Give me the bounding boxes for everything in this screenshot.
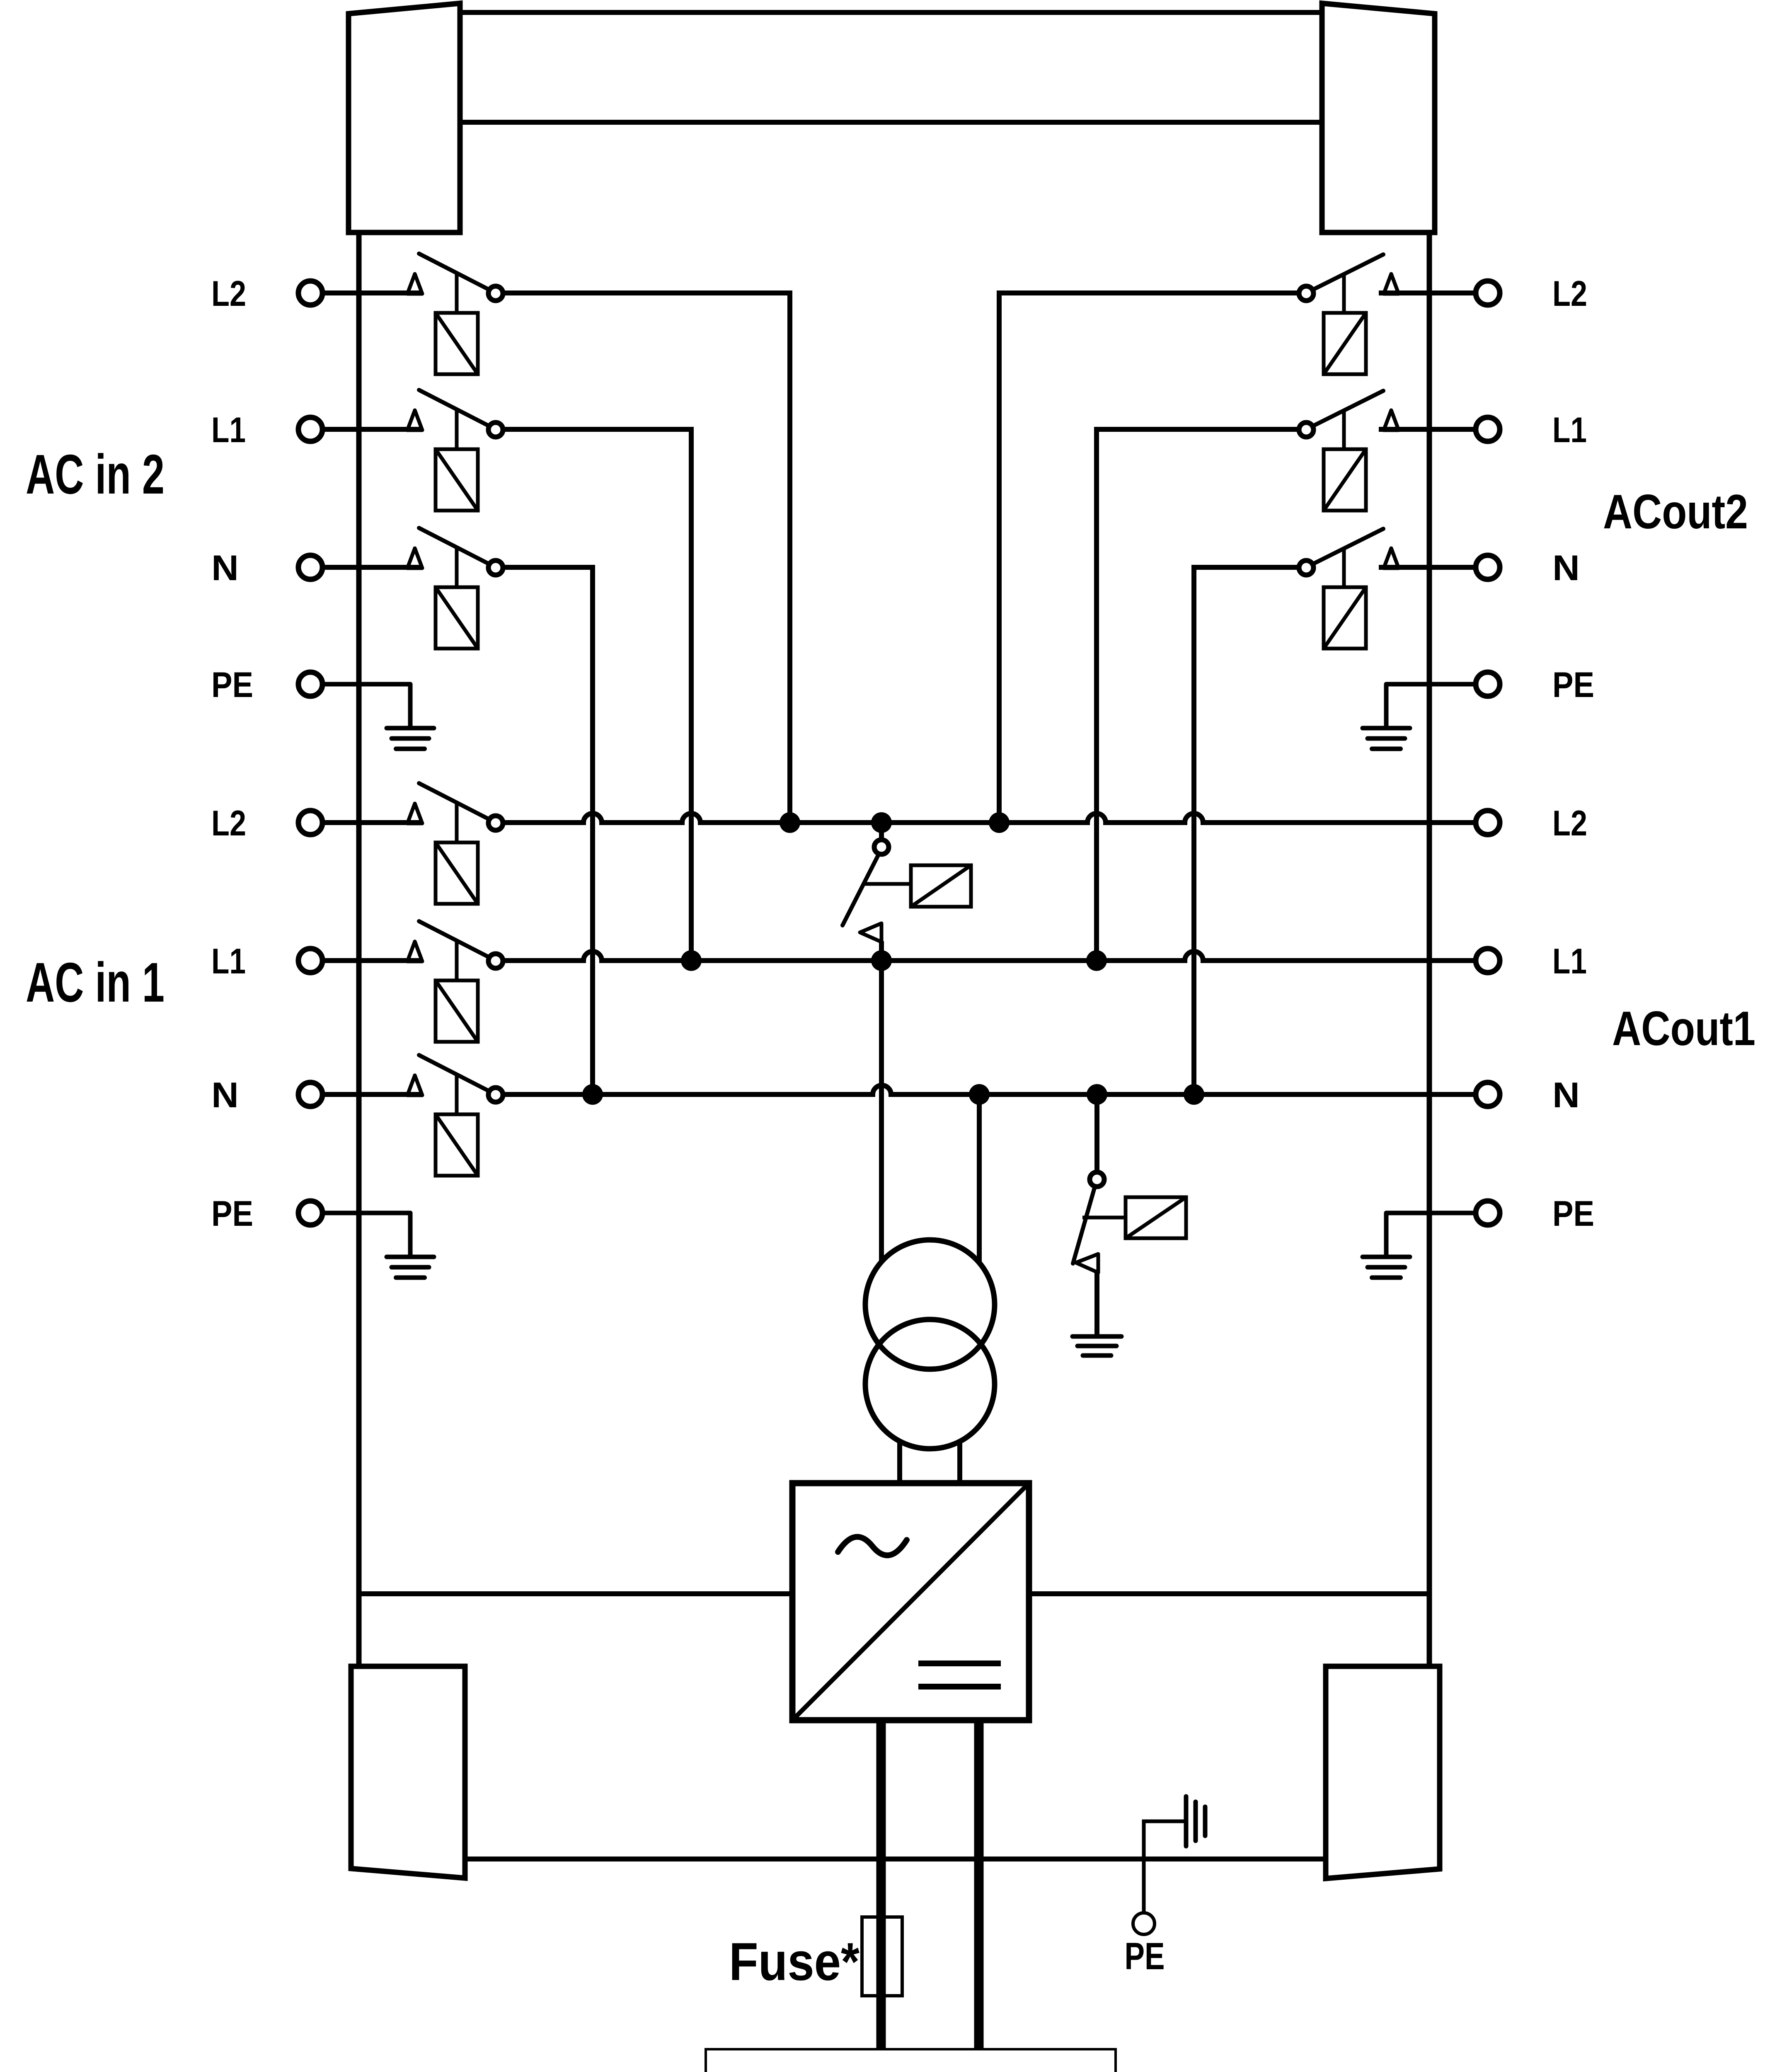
relay K4 (AC in 1 L2) blade bbox=[419, 783, 493, 821]
wire transformer primary right lead bbox=[977, 1094, 982, 1263]
enclosure bracket top-right bbox=[1322, 3, 1435, 232]
terminal AC in 2 N bbox=[298, 555, 322, 579]
relay K7 (ACout2 L2) fixed contact triangle bbox=[1384, 274, 1399, 294]
relay K9 (ACout2 N) moving contact bbox=[1299, 561, 1314, 575]
junction node L1 / relay K10 and transformer bbox=[871, 950, 892, 971]
wire transformer secondary right stub bbox=[957, 1441, 962, 1486]
relay K3 (AC in 2 N) blade bbox=[419, 528, 493, 566]
ground relay K11 earth bbox=[1073, 1334, 1121, 1339]
relay K8 (ACout2 L1) blade bbox=[1309, 391, 1383, 428]
wire AC in 1 L2 terminal to contact bbox=[310, 820, 423, 825]
relay K4 (AC in 1 L2) fixed contact triangle bbox=[407, 804, 422, 823]
relay K4 (AC in 1 L2) coil bbox=[436, 842, 478, 904]
relay K5 (AC in 1 L1) moving contact bbox=[489, 954, 503, 968]
enclosure bracket bottom-left bbox=[351, 1666, 465, 1878]
svg-text:PE: PE bbox=[211, 1194, 253, 1234]
ground AC in 1 PE bbox=[387, 1255, 434, 1259]
svg-text:L1: L1 bbox=[211, 410, 246, 450]
svg-text:Fuse*: Fuse* bbox=[729, 1932, 860, 1992]
relay K1 (AC in 2 L2) actuator link bbox=[455, 274, 459, 315]
transformer T1 primary winding bbox=[865, 1240, 995, 1369]
wire ACout2 L1 from bus L1 bbox=[1097, 429, 1299, 961]
wire AC in 2 L1 terminal to contact bbox=[310, 427, 423, 432]
svg-text:PE: PE bbox=[211, 665, 253, 705]
junction node L1 / AC in 2 drop bbox=[681, 950, 702, 971]
wire ACout2 L2 contact to terminal bbox=[1379, 290, 1488, 295]
svg-text:N: N bbox=[211, 548, 239, 588]
terminal ACout2 L1 bbox=[1476, 417, 1500, 441]
junction node N / AC in 2 drop bbox=[582, 1084, 603, 1105]
wire top band upper bbox=[460, 10, 1322, 15]
relay K7 (ACout2 L2) actuator link bbox=[1342, 274, 1346, 315]
wire bus L2 (node L2) bbox=[503, 813, 1488, 823]
relay K2 (AC in 2 L1) coil bbox=[436, 449, 478, 511]
terminal ACout1 PE bbox=[1476, 1201, 1500, 1225]
wire transformer secondary left stub bbox=[897, 1441, 902, 1486]
svg-text:L2: L2 bbox=[1552, 274, 1587, 314]
junction node L2 / relay K10 bbox=[871, 812, 892, 833]
terminal ACout1 L2 bbox=[1476, 811, 1500, 835]
wire AC in 1 L1 terminal to contact bbox=[310, 958, 423, 963]
wire ACout2 L2 from bus L2 bbox=[999, 293, 1299, 823]
relay K6 (AC in 1 N) fixed contact triangle bbox=[407, 1075, 422, 1095]
relay K7 (ACout2 L2) moving contact bbox=[1299, 286, 1314, 301]
wire AC in 2 PE pigtail bbox=[310, 684, 410, 728]
terminal AC in 2 L2 bbox=[298, 281, 322, 305]
relay K10 stub from node L2 bbox=[879, 823, 884, 841]
relay K11 coil bbox=[1126, 1197, 1186, 1238]
svg-text:L1: L1 bbox=[1552, 942, 1587, 981]
wire AC in 2 L1 to bus L1 bbox=[503, 429, 691, 961]
enclosure bracket top-left bbox=[349, 3, 460, 232]
terminal ACout1 N bbox=[1476, 1082, 1500, 1106]
terminal ACout2 L2 bbox=[1476, 281, 1500, 305]
wire bus N (node N) bbox=[503, 1085, 1488, 1094]
transformer T1 secondary winding bbox=[865, 1319, 995, 1449]
inverter/charger U1 diagonal bbox=[792, 1483, 1029, 1720]
relay K8 (ACout2 L1) moving contact bbox=[1299, 423, 1314, 437]
svg-text:N: N bbox=[1552, 1075, 1580, 1115]
wire ACout1 PE pigtail bbox=[1386, 1213, 1488, 1257]
junction node N / relay K11 bbox=[1087, 1084, 1107, 1105]
relay K9 (ACout2 N) blade bbox=[1309, 529, 1383, 566]
wire ACout2 N contact to terminal bbox=[1379, 565, 1488, 570]
relay K3 (AC in 2 N) moving contact bbox=[489, 561, 503, 575]
relay K1 (AC in 2 L2) coil bbox=[436, 313, 478, 374]
relay K9 (ACout2 N) fixed contact triangle bbox=[1384, 548, 1399, 568]
terminal AC in 2 PE bbox=[298, 672, 322, 696]
wire AC in 2 L2 to bus L2 bbox=[503, 293, 790, 823]
relay K5 (AC in 1 L1) blade bbox=[419, 921, 493, 959]
terminal AC in 1 L1 bbox=[298, 949, 322, 973]
relay K11 moving contact bbox=[1090, 1172, 1104, 1187]
relay K4 (AC in 1 L2) actuator link bbox=[455, 803, 459, 844]
terminal chassis PE bbox=[1133, 1913, 1155, 1934]
wire chassis PE bbox=[1144, 1821, 1184, 1913]
svg-text:N: N bbox=[1552, 548, 1580, 588]
terminal ACout2 N bbox=[1476, 555, 1500, 579]
svg-text:PE: PE bbox=[1125, 1935, 1165, 1978]
enclosure bracket bottom-right bbox=[1326, 1666, 1440, 1878]
ground AC in 2 PE bbox=[387, 726, 434, 731]
relay K5 (AC in 1 L1) actuator link bbox=[455, 941, 459, 982]
relay K8 (ACout2 L1) fixed contact triangle bbox=[1384, 410, 1399, 430]
relay K5 (AC in 1 L1) fixed contact triangle bbox=[407, 942, 422, 961]
relay K3 (AC in 2 N) coil bbox=[436, 587, 478, 649]
relay K6 (AC in 1 N) blade bbox=[419, 1055, 493, 1093]
relay K11 stub to earth bbox=[1094, 1272, 1099, 1336]
terminal ACout1 L1 bbox=[1476, 949, 1500, 973]
svg-text:N: N bbox=[211, 1075, 239, 1115]
svg-text:L1: L1 bbox=[1552, 410, 1587, 450]
svg-text:L2: L2 bbox=[211, 804, 246, 843]
relay K5 (AC in 1 L1) coil bbox=[436, 980, 478, 1042]
relay K9 (ACout2 N) coil bbox=[1324, 587, 1366, 649]
svg-text:ACout2: ACout2 bbox=[1603, 484, 1748, 539]
svg-text:ACout1: ACout1 bbox=[1612, 1001, 1755, 1055]
relay K6 (AC in 1 N) moving contact bbox=[489, 1088, 503, 1102]
terminal AC in 1 L2 bbox=[298, 811, 322, 835]
relay K8 (ACout2 L1) actuator link bbox=[1342, 410, 1346, 451]
relay K2 (AC in 2 L1) fixed contact triangle bbox=[407, 410, 422, 430]
junction node L2 / AC in 2 drop bbox=[780, 812, 800, 833]
wire AC in 2 N terminal to contact bbox=[310, 565, 423, 570]
inverter/charger U1 DC symbol bbox=[918, 1661, 1001, 1666]
relay K10 actuator link bbox=[863, 882, 913, 886]
svg-text:L2: L2 bbox=[211, 274, 246, 314]
wire transformer primary left lead bbox=[879, 961, 884, 1262]
battery B1 body bbox=[706, 2049, 1116, 2072]
wire frame left vertical bbox=[356, 232, 362, 1666]
svg-text:PE: PE bbox=[1552, 665, 1594, 705]
svg-text:AC in 1: AC in 1 bbox=[26, 951, 165, 1014]
wire ACout2 PE pigtail bbox=[1386, 684, 1488, 728]
svg-text:L1: L1 bbox=[211, 942, 246, 981]
wire frame bottom bbox=[359, 1591, 1429, 1596]
junction node N / ACout2 drop bbox=[1184, 1084, 1204, 1105]
relay K11 fixed contact bbox=[1076, 1254, 1098, 1273]
wire bus L1 (node L1) bbox=[503, 951, 1488, 961]
ground ACout1 PE bbox=[1363, 1255, 1410, 1259]
relay K11 blade bbox=[1073, 1186, 1095, 1264]
wire ACout2 N from bus N bbox=[1194, 567, 1299, 1094]
relay K1 (AC in 2 L2) fixed contact triangle bbox=[407, 274, 422, 294]
wire battery negative cable bbox=[974, 1720, 984, 2051]
fuse F1 bbox=[862, 1917, 902, 1996]
wire AC in 1 PE pigtail bbox=[310, 1213, 410, 1257]
svg-text:PE: PE bbox=[1552, 1194, 1594, 1234]
inverter/charger U1 AC symbol bbox=[838, 1537, 907, 1556]
junction node N / transformer bbox=[969, 1084, 990, 1105]
svg-text:AC in 2: AC in 2 bbox=[26, 443, 165, 506]
relay K2 (AC in 2 L1) moving contact bbox=[489, 423, 503, 437]
terminal AC in 1 N bbox=[298, 1082, 322, 1106]
relay K11 stub from node N bbox=[1094, 1094, 1099, 1173]
relay K1 (AC in 2 L2) moving contact bbox=[489, 286, 503, 301]
svg-text:L2: L2 bbox=[1552, 804, 1587, 843]
relay K2 (AC in 2 L1) actuator link bbox=[455, 410, 459, 451]
relay K6 (AC in 1 N) coil bbox=[436, 1114, 478, 1176]
wire bottom band bbox=[465, 1857, 1326, 1861]
relay K10 coil bbox=[911, 865, 971, 907]
chassis earth symbol bbox=[1184, 1796, 1189, 1846]
relay K10 stub to node L1 bbox=[879, 941, 884, 961]
relay K7 (ACout2 L2) coil bbox=[1324, 313, 1366, 374]
wire AC in 2 N to bus N bbox=[503, 567, 593, 1094]
ground ACout2 PE bbox=[1363, 726, 1410, 731]
relay K8 (ACout2 L1) coil bbox=[1324, 449, 1366, 511]
relay K11 actuator link bbox=[1082, 1216, 1127, 1220]
relay K10 moving contact bbox=[874, 840, 889, 854]
terminal AC in 2 L1 bbox=[298, 417, 322, 441]
relay K4 (AC in 1 L2) moving contact bbox=[489, 816, 503, 830]
wire battery positive cable bbox=[876, 1720, 886, 2051]
wire top band lower bbox=[460, 120, 1322, 125]
wire ACout2 L1 contact to terminal bbox=[1379, 427, 1488, 432]
relay K7 (ACout2 L2) blade bbox=[1309, 254, 1383, 292]
terminal AC in 1 PE bbox=[298, 1201, 322, 1225]
wire AC in 2 L2 terminal to contact bbox=[310, 290, 423, 295]
relay K6 (AC in 1 N) actuator link bbox=[455, 1075, 459, 1116]
relay K1 (AC in 2 L2) blade bbox=[419, 254, 493, 292]
relay K10 blade bbox=[843, 854, 879, 925]
inverter/charger U1 body bbox=[792, 1483, 1029, 1720]
relay K2 (AC in 2 L1) blade bbox=[419, 390, 493, 428]
junction node L1 / ACout2 drop bbox=[1086, 950, 1107, 971]
relay K3 (AC in 2 N) fixed contact triangle bbox=[407, 548, 422, 568]
relay K3 (AC in 2 N) actuator link bbox=[455, 548, 459, 589]
relay K9 (ACout2 N) actuator link bbox=[1342, 548, 1346, 589]
relay K10 fixed contact bbox=[860, 923, 881, 942]
wire AC in 1 N terminal to contact bbox=[310, 1092, 423, 1097]
junction node L2 / ACout2 drop bbox=[989, 812, 1010, 833]
terminal ACout2 PE bbox=[1476, 672, 1500, 696]
wire frame right vertical bbox=[1427, 232, 1432, 1666]
